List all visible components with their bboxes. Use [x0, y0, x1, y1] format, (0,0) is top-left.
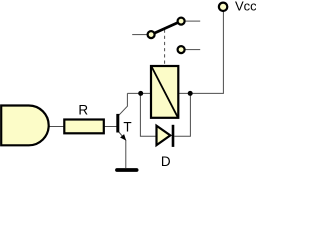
svg-text:D: D	[161, 154, 171, 169]
svg-text:Vcc: Vcc	[235, 0, 256, 14]
svg-text:T: T	[123, 120, 131, 135]
svg-text:R: R	[78, 102, 88, 117]
